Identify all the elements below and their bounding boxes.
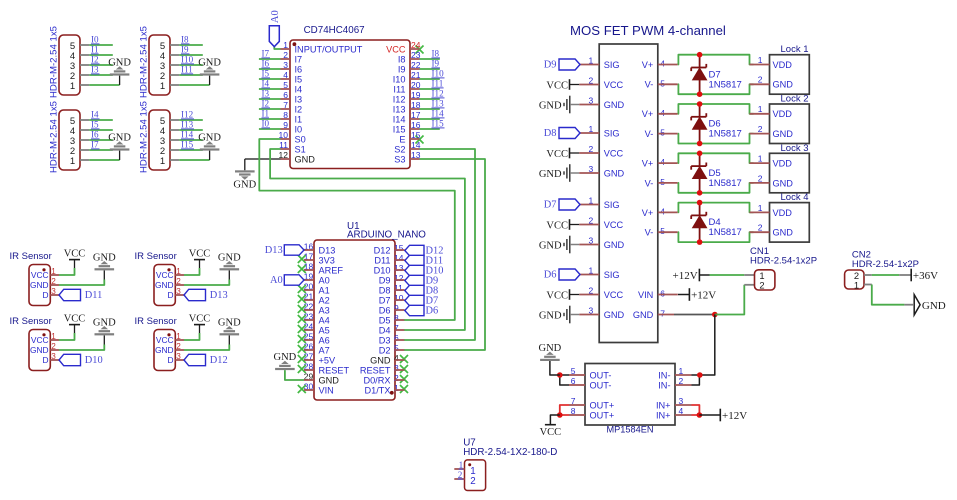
svg-text:GND: GND — [233, 179, 256, 190]
wire IN+ loop — [692, 405, 700, 415]
svg-text:IR Sensor: IR Sensor — [135, 316, 177, 327]
connector Lock 4 — [770, 203, 810, 243]
svg-text:1: 1 — [160, 81, 165, 92]
wire P3 pin1 to GND — [89, 159, 119, 161]
svg-text:I11: I11 — [181, 65, 193, 75]
svg-text:D3: D3 — [379, 335, 391, 345]
svg-text:D9: D9 — [379, 275, 391, 285]
net flag D6 — [405, 305, 424, 315]
svg-text:GND: GND — [773, 178, 794, 188]
svg-text:I4: I4 — [91, 110, 99, 120]
svg-text:5: 5 — [660, 78, 665, 88]
no-connect U2 pin24 — [416, 46, 424, 54]
svg-text:I8: I8 — [432, 49, 440, 59]
connector P4 HDR-M-2.54 1x5 — [149, 110, 170, 170]
junction OUT+ — [557, 412, 563, 418]
svg-text:I3: I3 — [91, 65, 99, 75]
wire OUT- to ground — [550, 361, 560, 375]
no-connect U2 pin15 E — [416, 136, 424, 144]
svg-text:2: 2 — [758, 223, 763, 233]
ground (PWM ch1) — [569, 96, 571, 114]
wire net I12 — [179, 119, 203, 121]
wire VCC (IR D13) — [184, 268, 200, 275]
no-connect U1 pin21 — [298, 295, 306, 303]
net flag D10 — [59, 354, 81, 365]
multiplexer U2 CD74HC4067 — [290, 40, 410, 169]
svg-text:I10: I10 — [393, 74, 406, 84]
wire net I14 — [179, 139, 203, 141]
svg-text:GND: GND — [539, 240, 562, 251]
svg-text:VIN: VIN — [638, 290, 653, 300]
svg-text:SIG: SIG — [604, 270, 620, 280]
net flag D10 — [405, 265, 424, 275]
wire GND (IR D12) — [184, 345, 229, 351]
svg-text:+12V: +12V — [673, 270, 698, 282]
power +12V (VIN) — [688, 288, 690, 301]
wire net I0 — [89, 44, 113, 46]
net flag D8 (PWM ch2) — [559, 128, 580, 139]
wire U2 GND — [245, 158, 281, 160]
svg-text:4: 4 — [394, 353, 399, 363]
IR sensor (D10) — [29, 330, 50, 371]
svg-text:2: 2 — [759, 280, 764, 291]
wire GND (IR D11) — [59, 280, 104, 286]
svg-text:GND: GND — [773, 80, 794, 90]
svg-text:13: 13 — [394, 263, 404, 273]
svg-text:GND: GND — [604, 100, 625, 110]
net flag D13 — [184, 289, 206, 300]
svg-text:1: 1 — [854, 279, 859, 290]
wire P2 pin1 to GND — [179, 84, 209, 86]
svg-text:I4: I4 — [295, 84, 303, 94]
net flag D9 (PWM ch1) — [559, 59, 580, 70]
IR sensor (D11) — [29, 265, 50, 306]
wire VCC (IR D12) — [184, 333, 200, 340]
wire net I10 — [179, 64, 203, 66]
svg-text:D12: D12 — [374, 245, 391, 255]
wire net I13 right — [420, 108, 440, 110]
wire A0 to U2 pin1 — [274, 47, 280, 49]
svg-text:I7: I7 — [262, 49, 270, 59]
svg-text:D8: D8 — [379, 285, 391, 295]
wire V+ ch4 — [678, 203, 754, 213]
svg-text:5: 5 — [394, 343, 399, 353]
wire net I4 left — [259, 88, 281, 90]
svg-text:D12: D12 — [210, 355, 228, 366]
ground CN2 (netport) — [914, 295, 920, 315]
svg-text:5: 5 — [660, 177, 665, 187]
no-connect U1 pin28 — [298, 365, 306, 373]
svg-text:AREF: AREF — [319, 265, 344, 275]
svg-text:I5: I5 — [262, 69, 270, 79]
no-connect U1 pin4 — [400, 355, 408, 363]
svg-text:OUT-: OUT- — [590, 380, 612, 390]
svg-text:OUT+: OUT+ — [590, 410, 615, 420]
wire net I2 — [89, 64, 113, 66]
svg-text:Lock 1: Lock 1 — [781, 44, 809, 55]
svg-text:IR Sensor: IR Sensor — [10, 251, 52, 262]
svg-text:I15: I15 — [393, 124, 406, 134]
svg-text:VCC: VCC — [546, 220, 568, 231]
no-connect U1 pin23 — [298, 315, 306, 323]
power VCC (PWM ch1) — [569, 79, 571, 90]
wire net I6 — [89, 139, 113, 141]
svg-text:1: 1 — [70, 81, 75, 92]
svg-text:V-: V- — [645, 178, 654, 188]
wire net I11 right — [420, 88, 440, 90]
power VCC (IR D12) — [194, 324, 205, 326]
svg-text:IN-: IN- — [658, 370, 670, 380]
svg-text:I13: I13 — [181, 120, 194, 130]
svg-text:GND: GND — [539, 343, 562, 354]
wire net I0 left — [259, 128, 281, 130]
svg-text:D7: D7 — [544, 200, 557, 211]
wire +12V to CN1 pin1 — [710, 274, 745, 276]
svg-text:VCC: VCC — [540, 427, 562, 438]
ground (PWM ch2) — [569, 164, 571, 182]
svg-text:GND: GND — [370, 355, 391, 365]
svg-text:GND: GND — [295, 154, 316, 164]
svg-text:MOS FET PWM 4-channel: MOS FET PWM 4-channel — [570, 23, 726, 38]
svg-text:D13: D13 — [319, 245, 336, 255]
power VCC (PWM ch4) — [569, 289, 571, 300]
junction diode D7 cathode — [697, 52, 703, 58]
svg-text:6: 6 — [394, 333, 399, 343]
svg-text:I13: I13 — [432, 99, 445, 109]
svg-text:IN+: IN+ — [656, 410, 671, 420]
net flag D9 — [405, 275, 424, 285]
svg-text:5: 5 — [660, 128, 665, 138]
svg-text:VDD: VDD — [773, 159, 793, 169]
svg-text:VIN: VIN — [319, 385, 334, 395]
svg-text:SIG: SIG — [604, 60, 620, 70]
svg-text:VCC: VCC — [604, 80, 624, 90]
svg-text:A7: A7 — [319, 345, 330, 355]
svg-text:V-: V- — [645, 129, 654, 139]
no-connect U1 pin3 — [400, 365, 408, 373]
svg-text:Lock 3: Lock 3 — [781, 143, 809, 154]
no-connect U1 pin1 — [400, 385, 408, 393]
svg-text:GND: GND — [30, 345, 49, 355]
wire net I12 right — [420, 98, 440, 100]
ground (PWM ch4) — [569, 306, 571, 324]
wire V- ch2 — [678, 134, 754, 144]
wire V+ ch3 — [678, 153, 754, 163]
svg-text:GND: GND — [155, 345, 174, 355]
ground P2 — [200, 73, 220, 75]
svg-text:2: 2 — [458, 470, 463, 480]
connector P2 HDR-M-2.54 1x5 — [149, 35, 170, 95]
svg-text:GND: GND — [108, 58, 131, 69]
net flag D8 — [405, 285, 424, 295]
wire net S0 (U2 pin10 - U1 D5) — [259, 139, 455, 320]
wire net I6 left — [259, 68, 281, 70]
svg-text:SIG: SIG — [604, 200, 620, 210]
svg-text:VCC: VCC — [64, 248, 86, 259]
svg-text:VCC: VCC — [386, 44, 406, 54]
svg-text:I14: I14 — [432, 109, 445, 119]
svg-text:I4: I4 — [262, 79, 270, 89]
svg-text:E: E — [399, 134, 405, 144]
svg-text:I6: I6 — [262, 59, 270, 69]
svg-text:RESET: RESET — [319, 365, 350, 375]
svg-text:I15: I15 — [181, 140, 194, 150]
svg-text:HDR-2.54-1x2P: HDR-2.54-1x2P — [852, 259, 919, 270]
power VCC (PWM ch2) — [569, 148, 571, 159]
svg-text:VCC: VCC — [189, 313, 211, 324]
power +12V (CN1) — [698, 269, 700, 282]
svg-text:HDR-2.54-1x2P: HDR-2.54-1x2P — [750, 256, 817, 267]
svg-text:8: 8 — [394, 313, 399, 323]
svg-text:VCC: VCC — [31, 270, 49, 280]
wire net I15 — [179, 149, 203, 151]
IR sensor (D13) — [154, 265, 175, 306]
wire OUT+ loop — [560, 405, 569, 415]
svg-text:HDR-2.54-1X2-180-D: HDR-2.54-1X2-180-D — [463, 447, 557, 458]
svg-text:GND: GND — [198, 58, 221, 69]
junction diode D6 cathode — [697, 101, 703, 107]
mcu U1 ARDUINO_NANO — [314, 240, 395, 400]
svg-text:I13: I13 — [393, 104, 406, 114]
wire net S3 (U2 pin13 - U1 D2) — [404, 159, 485, 350]
svg-text:D: D — [168, 355, 174, 365]
svg-text:GND: GND — [93, 252, 116, 263]
svg-text:I1: I1 — [91, 45, 99, 55]
svg-text:GND: GND — [922, 300, 946, 312]
svg-text:1N5817: 1N5817 — [709, 79, 742, 90]
svg-text:D8: D8 — [544, 128, 557, 139]
svg-text:4: 4 — [660, 59, 665, 69]
svg-text:GND: GND — [539, 310, 562, 321]
svg-text:GND: GND — [604, 310, 625, 320]
svg-text:I9: I9 — [398, 64, 406, 74]
svg-text:I3: I3 — [262, 89, 270, 99]
no-connect U1 pin26 — [298, 345, 306, 353]
svg-text:1N5817: 1N5817 — [709, 227, 742, 238]
wire P1 pin1 to GND — [89, 84, 119, 86]
svg-text:I7: I7 — [91, 140, 99, 150]
wire GND (IR D13) — [184, 280, 229, 286]
svg-text:GND: GND — [633, 310, 654, 320]
svg-text:S3: S3 — [394, 154, 405, 164]
svg-text:VCC: VCC — [64, 313, 86, 324]
svg-text:15: 15 — [394, 243, 404, 253]
svg-text:GND: GND — [319, 375, 340, 385]
no-connect U1 pin30 — [298, 385, 306, 393]
svg-text:RESET: RESET — [360, 365, 391, 375]
junction IN+ — [697, 412, 703, 418]
wire OUT+ to VCC — [550, 415, 559, 424]
power VCC (PWM ch3) — [569, 219, 571, 230]
svg-text:D11: D11 — [374, 255, 390, 265]
svg-text:2: 2 — [394, 373, 399, 383]
svg-text:CD74HC4067: CD74HC4067 — [304, 25, 365, 36]
svg-text:D: D — [43, 355, 49, 365]
svg-text:2: 2 — [470, 476, 475, 487]
svg-text:INPUT/OUTPUT: INPUT/OUTPUT — [295, 44, 363, 54]
svg-text:IN-: IN- — [658, 380, 670, 390]
svg-text:I6: I6 — [91, 130, 99, 140]
diode D4 1N5817 — [699, 203, 701, 216]
svg-text:I9: I9 — [181, 45, 189, 55]
svg-text:I2: I2 — [262, 99, 270, 109]
svg-text:GND: GND — [604, 168, 625, 178]
net flag D11 — [405, 255, 424, 265]
no-connect U1 pin24 — [298, 325, 306, 333]
svg-text:VCC: VCC — [31, 335, 49, 345]
ground P1 — [110, 73, 130, 75]
svg-text:2: 2 — [758, 124, 763, 134]
svg-text:ARDUINO_NANO: ARDUINO_NANO — [347, 229, 426, 240]
svg-text:9: 9 — [394, 303, 399, 313]
svg-text:V+: V+ — [642, 60, 654, 70]
wire IN+ to +12V — [699, 414, 719, 416]
svg-text:D11: D11 — [85, 290, 103, 301]
svg-text:1: 1 — [758, 154, 763, 164]
ground (IR D12) — [220, 333, 240, 335]
svg-text:D2: D2 — [379, 345, 391, 355]
svg-text:A6: A6 — [319, 335, 330, 345]
svg-text:VCC: VCC — [604, 148, 624, 158]
svg-text:D1/TX: D1/TX — [364, 385, 390, 395]
wire VIN to +12V — [678, 294, 689, 296]
svg-text:I11: I11 — [393, 84, 405, 94]
svg-text:I2: I2 — [295, 104, 303, 114]
svg-text:A0: A0 — [319, 275, 330, 285]
svg-text:I12: I12 — [393, 94, 406, 104]
svg-text:V+: V+ — [642, 109, 654, 119]
svg-text:GND: GND — [218, 317, 241, 328]
wire U1 GND — [285, 370, 304, 380]
svg-text:VDD: VDD — [773, 60, 793, 70]
no-connect U1 pin18 — [298, 265, 306, 273]
power +12V MP1584EN — [719, 409, 721, 422]
wire net I8 — [179, 44, 203, 46]
connector P1 HDR-M-2.54 1x5 — [59, 35, 80, 95]
wire net I3 left — [259, 98, 281, 100]
svg-text:I12: I12 — [181, 110, 194, 120]
svg-text:I12: I12 — [432, 89, 445, 99]
connector P3 HDR-M-2.54 1x5 — [59, 110, 80, 170]
svg-text:VCC: VCC — [189, 248, 211, 259]
wire net I4 — [89, 119, 113, 121]
wire V- ch4 — [678, 232, 754, 242]
wire net I5 — [89, 129, 113, 131]
svg-text:HDR-M-2.54 1x5: HDR-M-2.54 1x5 — [139, 101, 150, 173]
svg-text:A5: A5 — [319, 325, 330, 335]
svg-text:2: 2 — [758, 75, 763, 85]
svg-text:D6: D6 — [379, 305, 391, 315]
net flag D12 — [405, 245, 424, 255]
junction diode D4 cathode — [697, 200, 703, 206]
svg-text:I1: I1 — [262, 109, 270, 119]
net flag D13 — [284, 245, 304, 255]
svg-text:1: 1 — [758, 203, 763, 213]
wire GND (IR D10) — [59, 345, 104, 351]
net flag A0 on U1 — [284, 275, 304, 285]
connector Lock 3 — [770, 153, 810, 193]
svg-text:11: 11 — [394, 283, 403, 293]
svg-text:D10: D10 — [374, 265, 391, 275]
wire net I9 — [179, 54, 203, 56]
ground P3 — [110, 148, 130, 150]
net flag A0 — [269, 26, 279, 47]
svg-text:GND: GND — [155, 280, 174, 290]
wire V- ch1 — [678, 84, 754, 94]
svg-text:V-: V- — [645, 228, 654, 238]
svg-text:I7: I7 — [295, 54, 303, 64]
svg-text:1: 1 — [394, 383, 399, 393]
wire VCC (IR D11) — [59, 268, 75, 275]
svg-text:7: 7 — [394, 323, 399, 333]
diode D7 1N5817 — [699, 55, 701, 68]
wire V+ ch2 — [678, 104, 754, 114]
wire OUT- loop — [560, 375, 569, 385]
svg-text:I1: I1 — [295, 114, 303, 124]
svg-text:I14: I14 — [393, 114, 406, 124]
no-connect U1 pin20 — [298, 285, 306, 293]
wire V- ch3 — [678, 183, 754, 193]
svg-text:VDD: VDD — [773, 208, 793, 218]
svg-text:VCC: VCC — [546, 290, 568, 301]
svg-text:D10: D10 — [85, 355, 103, 366]
svg-text:4: 4 — [660, 206, 665, 216]
svg-text:I3: I3 — [295, 94, 303, 104]
svg-text:OUT-: OUT- — [590, 370, 612, 380]
svg-text:GND: GND — [198, 133, 221, 144]
svg-text:4: 4 — [660, 108, 665, 118]
svg-text:OUT+: OUT+ — [590, 400, 615, 410]
wire net I7 left — [259, 58, 281, 60]
svg-text:I6: I6 — [295, 64, 303, 74]
svg-text:I10: I10 — [432, 69, 445, 79]
diode D6 1N5817 — [699, 104, 701, 117]
ground U2 — [235, 170, 255, 172]
ground (PWM ch3) — [569, 236, 571, 254]
ground (IR D10) — [95, 333, 115, 335]
svg-text:+12V: +12V — [691, 289, 716, 301]
svg-text:VDD: VDD — [773, 109, 793, 119]
svg-text:A2: A2 — [319, 295, 330, 305]
wire net I14 right — [420, 118, 440, 120]
svg-text:D9: D9 — [544, 60, 557, 71]
ground (IR D11) — [95, 268, 115, 270]
connector CN1 HDR-2.54-1x2P — [755, 270, 775, 290]
svg-text:GND: GND — [773, 129, 794, 139]
svg-text:V+: V+ — [642, 208, 654, 218]
svg-text:1: 1 — [758, 104, 763, 114]
net flag D12 — [184, 354, 206, 365]
svg-text:D0/RX: D0/RX — [363, 375, 390, 385]
svg-text:I0: I0 — [262, 119, 270, 129]
svg-text:D13: D13 — [265, 245, 283, 256]
svg-text:+12V: +12V — [722, 410, 747, 422]
svg-text:D7: D7 — [379, 295, 391, 305]
wire net I11 — [179, 74, 203, 76]
ground (IR D13) — [220, 268, 240, 270]
svg-text:I11: I11 — [432, 79, 444, 89]
svg-text:IR Sensor: IR Sensor — [135, 251, 177, 262]
svg-text:D: D — [168, 290, 174, 300]
svg-text:I8: I8 — [181, 35, 189, 45]
wire net S1 (U2 pin11 - U1 D4) — [270, 149, 465, 330]
svg-text:D6: D6 — [544, 270, 557, 281]
power VCC MP1584EN — [545, 424, 556, 426]
svg-text:V-: V- — [645, 80, 654, 90]
svg-text:I5: I5 — [295, 74, 303, 84]
svg-text:I15: I15 — [432, 119, 445, 129]
junction diode D4 anode — [697, 239, 703, 245]
